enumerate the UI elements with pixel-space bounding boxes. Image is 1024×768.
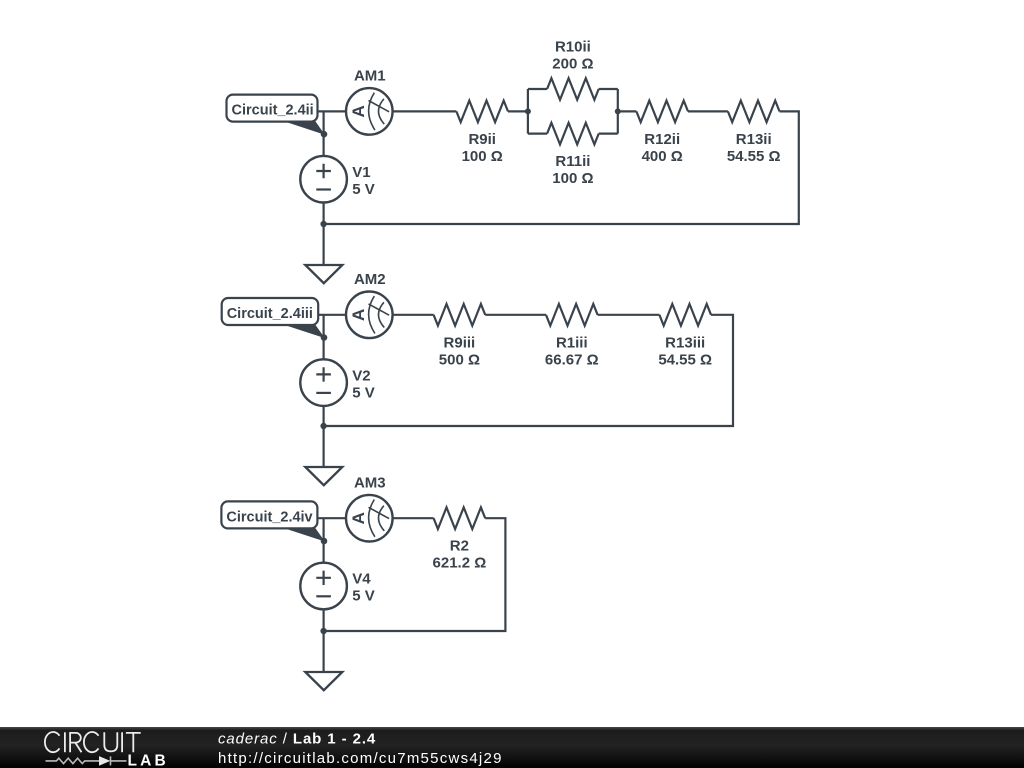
svg-text:A: A	[349, 512, 368, 524]
svg-text:R11ii: R11ii	[555, 153, 590, 170]
svg-text:A: A	[349, 105, 368, 117]
svg-text:Circuit_2.4ii: Circuit_2.4ii	[232, 103, 314, 119]
svg-text:R10ii: R10ii	[555, 38, 591, 55]
svg-text:R13iii: R13iii	[665, 334, 705, 351]
svg-text:LAB: LAB	[128, 752, 169, 768]
svg-text:Circuit_2.4iii: Circuit_2.4iii	[227, 306, 313, 322]
svg-text:AM3: AM3	[354, 475, 386, 492]
svg-text:500 Ω: 500 Ω	[439, 351, 480, 368]
svg-text:54.55 Ω: 54.55 Ω	[727, 148, 781, 165]
svg-text:5 V: 5 V	[352, 588, 375, 605]
svg-text:R1iii: R1iii	[556, 334, 588, 351]
svg-text:R9ii: R9ii	[468, 131, 496, 148]
svg-text:R12ii: R12ii	[644, 131, 680, 148]
svg-text:66.67 Ω: 66.67 Ω	[545, 351, 599, 368]
svg-text:200 Ω: 200 Ω	[552, 55, 593, 72]
svg-text:R13ii: R13ii	[736, 131, 772, 148]
svg-text:R2: R2	[450, 538, 469, 555]
svg-text:http://circuitlab.com/cu7m55cw: http://circuitlab.com/cu7m55cws4j29	[218, 750, 503, 767]
svg-text:400 Ω: 400 Ω	[642, 148, 683, 165]
svg-text:5 V: 5 V	[352, 384, 375, 401]
svg-text:AM2: AM2	[354, 271, 386, 288]
svg-text:V2: V2	[352, 367, 370, 384]
svg-text:100 Ω: 100 Ω	[462, 148, 503, 165]
svg-text:V1: V1	[352, 164, 370, 181]
svg-text:100 Ω: 100 Ω	[552, 170, 593, 187]
svg-text:A: A	[349, 309, 368, 321]
svg-text:Circuit_2.4iv: Circuit_2.4iv	[226, 509, 312, 525]
svg-text:5 V: 5 V	[352, 181, 375, 198]
svg-text:caderac / Lab 1 - 2.4: caderac / Lab 1 - 2.4	[218, 730, 376, 747]
svg-text:R9iii: R9iii	[444, 334, 476, 351]
svg-text:V4: V4	[352, 571, 371, 588]
svg-text:AM1: AM1	[354, 68, 386, 85]
svg-text:621.2 Ω: 621.2 Ω	[433, 555, 487, 572]
svg-text:54.55 Ω: 54.55 Ω	[658, 351, 712, 368]
